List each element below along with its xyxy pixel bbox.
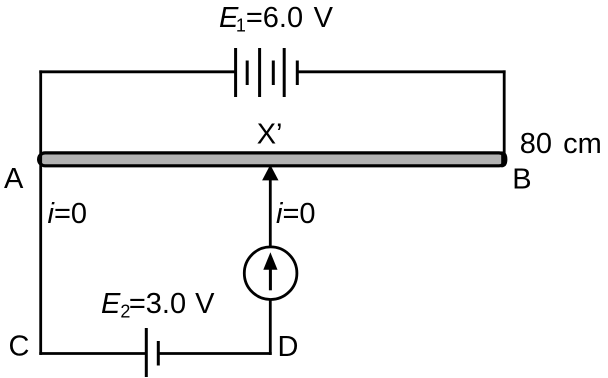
svg-text:E2=3.0V: E2=3.0V — [101, 288, 215, 322]
slide wire AB (resistance wire, 80 cm) — [39, 153, 506, 166]
arrow inside galvanometer — [263, 252, 277, 290]
wire top-right (E1 - to B) — [297, 70, 505, 73]
svg-text:D: D — [278, 331, 299, 363]
wire left vertical (A to C) — [39, 70, 42, 355]
battery E1 (3 cells) — [236, 48, 298, 97]
wire bottom-left (C to E2) — [39, 352, 146, 355]
galvanometer / current indicator G — [244, 247, 297, 300]
wire middle upper (arrow stem to galvanometer) — [269, 178, 272, 248]
wire right vertical (to B) — [503, 70, 506, 165]
wire bottom-right (E2 to D) — [158, 352, 271, 355]
svg-text:i=0: i=0 — [48, 198, 88, 230]
wire top-left (A to E1 +) — [39, 70, 236, 73]
arrowhead at slider contact (wire into X') — [262, 165, 278, 181]
battery E2 (single cell) — [146, 328, 158, 377]
svg-text:X’: X’ — [257, 119, 283, 151]
node B contact (black end cap of slide wire) — [501, 151, 507, 167]
svg-text:A: A — [4, 163, 24, 195]
svg-text:i=0: i=0 — [276, 198, 316, 230]
svg-text:B: B — [512, 164, 531, 196]
wire middle lower (galvanometer to D) — [269, 300, 272, 355]
svg-text:E1=6.0V: E1=6.0V — [219, 2, 334, 36]
svg-text:C: C — [9, 331, 30, 363]
